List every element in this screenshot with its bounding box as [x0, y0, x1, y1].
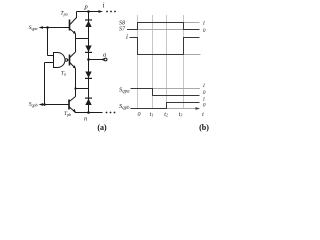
svg-text:0: 0 — [203, 90, 206, 96]
svg-text:S7: S7 — [119, 26, 126, 32]
svg-text:1: 1 — [203, 83, 206, 89]
svg-text:0: 0 — [138, 112, 141, 118]
svg-text:i: i — [126, 33, 128, 41]
svg-text:t1: t1 — [150, 112, 154, 118]
svg-text:Sqpa: Sqpa — [29, 25, 38, 31]
svg-text:Sqpb: Sqpb — [29, 102, 38, 108]
svg-text:0: 0 — [203, 28, 206, 34]
svg-text:a: a — [103, 52, 106, 59]
svg-text:n: n — [84, 115, 87, 122]
svg-text:Tpa: Tpa — [61, 10, 68, 16]
svg-text:t3: t3 — [179, 112, 183, 118]
svg-text:Ta: Ta — [61, 70, 66, 76]
svg-text:Tpb: Tpb — [64, 111, 71, 117]
svg-text:i: i — [103, 2, 105, 10]
svg-text:1: 1 — [203, 20, 206, 26]
svg-text:(a): (a) — [97, 123, 107, 132]
svg-text:t2: t2 — [164, 112, 168, 118]
svg-text:(b): (b) — [199, 123, 209, 132]
svg-text:0: 0 — [203, 102, 206, 108]
